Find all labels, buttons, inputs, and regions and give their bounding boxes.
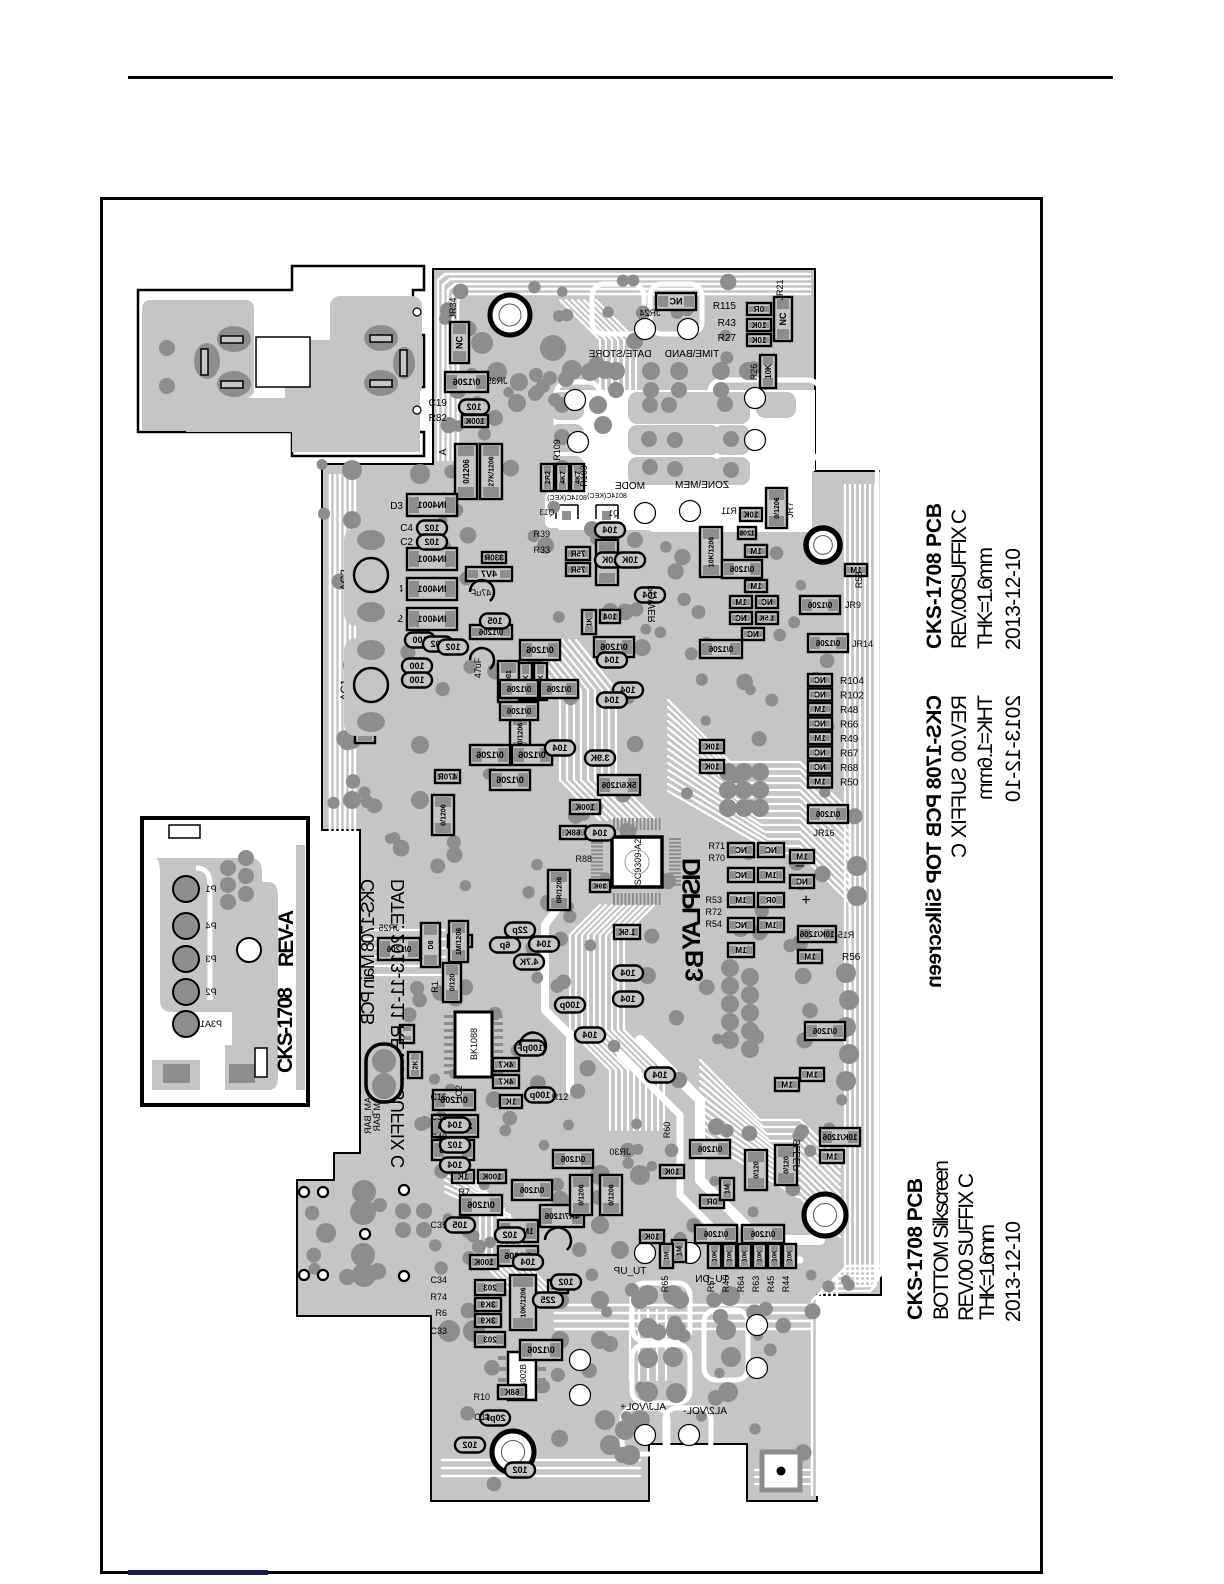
svg-text:CKS-1708 PCB TOP Silkscreen: CKS-1708 PCB TOP Silkscreen — [923, 695, 946, 988]
svg-text:JR34: JR34 — [448, 297, 458, 318]
svg-text:R104: R104 — [840, 676, 864, 687]
svg-text:4K7: 4K7 — [498, 1060, 513, 1069]
svg-text:NC: NC — [765, 846, 777, 855]
svg-text:0/1206: 0/1206 — [453, 377, 481, 387]
svg-text:1K: 1K — [586, 618, 593, 627]
svg-text:R72: R72 — [705, 907, 722, 917]
svg-text:0/1206: 0/1206 — [519, 1186, 544, 1195]
svg-text:R58: R58 — [854, 572, 864, 589]
svg-text:BOTTOM Silkscreen: BOTTOM Silkscreen — [930, 1160, 953, 1320]
svg-text:BK1088: BK1088 — [469, 1028, 479, 1060]
svg-text:10K: 10K — [751, 321, 766, 330]
svg-text:10K: 10K — [621, 555, 638, 565]
svg-text:1.5K: 1.5K — [760, 615, 775, 622]
svg-text:NC: NC — [796, 877, 808, 886]
svg-text:R108: R108 — [579, 465, 589, 487]
svg-text:104: 104 — [520, 1257, 535, 1267]
svg-text:ZONE\MEM: ZONE\MEM — [675, 480, 729, 491]
svg-text:R6: R6 — [435, 1308, 447, 1318]
svg-text:R68: R68 — [840, 763, 859, 774]
svg-text:R54: R54 — [705, 919, 722, 929]
svg-text:10K: 10K — [751, 336, 766, 345]
svg-text:0/1206: 0/1206 — [518, 750, 546, 760]
svg-text:DISPLAY: DISPLAY — [678, 858, 706, 950]
svg-text:1M/1206: 1M/1206 — [456, 928, 463, 955]
svg-text:102: 102 — [445, 642, 460, 652]
svg-text:0/1206: 0/1206 — [546, 685, 571, 694]
svg-text:0/1206: 0/1206 — [600, 642, 628, 652]
svg-text:100K: 100K — [465, 417, 484, 426]
svg-text:0/1206: 0/1206 — [729, 565, 754, 574]
svg-text:4.7K: 4.7K — [519, 957, 539, 967]
svg-text:+: + — [801, 892, 810, 909]
svg-text:10K: 10K — [773, 1250, 779, 1262]
svg-text:104: 104 — [536, 939, 551, 949]
svg-text:0/1206: 0/1206 — [467, 1200, 495, 1210]
svg-text:100K: 100K — [474, 1258, 493, 1267]
svg-text:THK=1.6mm: THK=1.6mm — [974, 547, 997, 649]
svg-text:1M: 1M — [735, 598, 746, 607]
svg-text:C36: C36 — [430, 1112, 447, 1122]
svg-text:1M: 1M — [826, 1152, 837, 1161]
svg-text:0/1206: 0/1206 — [526, 645, 554, 655]
svg-text:10K: 10K — [704, 762, 719, 771]
svg-text:10K: 10K — [758, 1250, 764, 1262]
svg-text:C11: C11 — [474, 1412, 490, 1422]
svg-text:NC: NC — [669, 297, 682, 307]
svg-text:SC9309-A2: SC9309-A2 — [633, 839, 643, 886]
svg-text:NC: NC — [814, 676, 826, 685]
svg-text:0R: 0R — [766, 896, 776, 905]
svg-text:C19: C19 — [429, 398, 448, 409]
svg-text:8014C(KEC): 8014C(KEC) — [587, 493, 627, 500]
svg-text:75R: 75R — [570, 549, 585, 558]
svg-text:330R: 330R — [484, 553, 503, 562]
svg-text:470R: 470R — [438, 772, 457, 781]
svg-text:C35: C35 — [430, 1220, 447, 1230]
svg-text:C2: C2 — [400, 537, 413, 548]
svg-text:105: 105 — [487, 616, 502, 626]
svg-text:3.9K: 3.9K — [590, 753, 610, 763]
svg-text:Q13: Q13 — [539, 508, 555, 517]
svg-text:R56: R56 — [842, 952, 861, 963]
svg-text:R71: R71 — [708, 841, 725, 851]
svg-text:D3: D3 — [390, 501, 403, 512]
svg-text:10K: 10K — [664, 1167, 679, 1176]
svg-text:NC: NC — [735, 921, 747, 930]
svg-text:100K: 100K — [482, 1172, 501, 1181]
svg-text:JR21: JR21 — [775, 279, 785, 300]
svg-text:R39: R39 — [533, 529, 550, 539]
svg-text:1.5K: 1.5K — [618, 928, 635, 937]
svg-text:JR25: JR25 — [378, 923, 399, 933]
svg-text:NC: NC — [455, 336, 465, 349]
svg-text:P2: P2 — [205, 987, 216, 997]
svg-text:NC: NC — [747, 630, 759, 639]
svg-text:75R: 75R — [570, 565, 585, 574]
svg-text:R66: R66 — [840, 720, 859, 731]
svg-text:R109: R109 — [552, 439, 562, 461]
svg-text:102: 102 — [512, 1465, 527, 1475]
svg-text:0/1206: 0/1206 — [506, 707, 531, 716]
svg-text:P4: P4 — [205, 921, 216, 931]
svg-text:Q1: Q1 — [608, 509, 619, 518]
svg-text:104: 104 — [447, 1120, 462, 1130]
svg-text:68K: 68K — [565, 828, 580, 837]
svg-text:2013-12-10: 2013-12-10 — [1002, 695, 1025, 802]
svg-text:R82: R82 — [429, 413, 448, 424]
svg-text:R63: R63 — [751, 1276, 761, 1293]
svg-text:100: 100 — [409, 661, 424, 671]
svg-text:P1: P1 — [205, 884, 216, 894]
svg-text:0/1206: 0/1206 — [815, 810, 840, 819]
svg-text:R45: R45 — [766, 1276, 776, 1293]
svg-text:0/1206: 0/1206 — [506, 685, 531, 694]
svg-text:C33: C33 — [430, 1326, 447, 1336]
svg-text:104: 104 — [604, 655, 619, 665]
svg-text:R27: R27 — [718, 333, 737, 344]
svg-text:1M: 1M — [806, 1070, 817, 1079]
svg-text:0/1206: 0/1206 — [608, 1184, 615, 1206]
svg-text:39K: 39K — [594, 883, 607, 890]
svg-text:R12: R12 — [552, 1092, 569, 1102]
svg-text:4K7: 4K7 — [560, 471, 567, 484]
svg-text:C34: C34 — [430, 1275, 447, 1285]
svg-text:102: 102 — [424, 523, 439, 533]
svg-text:DATE\STORE: DATE\STORE — [588, 349, 651, 360]
svg-text:1M: 1M — [735, 896, 746, 905]
svg-text:REV-A: REV-A — [275, 910, 298, 967]
svg-text:R11: R11 — [721, 506, 737, 516]
svg-text:JR30: JR30 — [609, 1147, 630, 1157]
svg-text:NC: NC — [735, 846, 747, 855]
svg-text:0/1206: 0/1206 — [440, 804, 447, 826]
svg-text:0/1206: 0/1206 — [560, 1155, 585, 1164]
svg-text:1M: 1M — [750, 547, 761, 556]
svg-text:2K: 2K — [412, 1061, 419, 1070]
svg-text:–: – — [796, 857, 805, 874]
svg-text:THK=1.6mm: THK=1.6mm — [976, 1224, 999, 1320]
svg-text:104: 104 — [604, 695, 619, 705]
svg-text:102: 102 — [558, 1277, 573, 1287]
svg-text:4K7: 4K7 — [498, 1077, 513, 1086]
svg-text:NC: NC — [778, 312, 788, 325]
svg-text:NC: NC — [735, 614, 747, 623]
svg-text:D8: D8 — [428, 940, 435, 949]
svg-text:10K/1206: 10K/1206 — [822, 1133, 857, 1142]
svg-text:R115: R115 — [713, 301, 737, 312]
svg-text:10K: 10K — [764, 364, 773, 379]
svg-text:0/1206: 0/1206 — [815, 639, 840, 648]
svg-text:TU_UP: TU_UP — [613, 1266, 646, 1277]
svg-text:R88: R88 — [575, 854, 592, 864]
svg-text:203: 203 — [483, 1283, 497, 1292]
svg-text:1206: 1206 — [739, 530, 755, 537]
svg-text:102: 102 — [466, 402, 481, 412]
svg-text:R7: R7 — [458, 1187, 470, 1197]
svg-text:2013-12-10: 2013-12-10 — [1002, 1221, 1025, 1322]
svg-text:R64: R64 — [736, 1276, 746, 1293]
svg-text:R1: R1 — [430, 981, 440, 993]
svg-text:R49: R49 — [840, 734, 859, 745]
svg-text:104: 104 — [602, 525, 617, 535]
svg-text:R15: R15 — [838, 930, 855, 940]
svg-text:68K: 68K — [504, 1388, 519, 1397]
svg-text:10K: 10K — [743, 1250, 749, 1262]
svg-text:8014C(KEC): 8014C(KEC) — [547, 495, 587, 502]
svg-text:R48: R48 — [840, 705, 859, 716]
svg-text:102: 102 — [424, 537, 439, 547]
svg-text:NC: NC — [735, 871, 747, 880]
svg-text:0R: 0R — [754, 305, 764, 314]
svg-text:104: 104 — [620, 968, 635, 978]
svg-text:10K: 10K — [644, 1232, 659, 1241]
svg-text:0/1206: 0/1206 — [807, 601, 832, 610]
svg-text:ALJ/VOL+: ALJ/VOL+ — [620, 1402, 666, 1413]
svg-text:P3: P3 — [205, 954, 216, 964]
svg-text:C16: C16 — [430, 1092, 447, 1102]
svg-text:CKS-1708 PCB: CKS-1708 PCB — [923, 503, 946, 649]
svg-text:102: 102 — [462, 1440, 477, 1450]
svg-text:0/1206: 0/1206 — [703, 1230, 728, 1239]
svg-text:NC: NC — [761, 598, 773, 607]
svg-text:R102: R102 — [840, 691, 864, 702]
svg-text:10K: 10K — [743, 510, 758, 519]
svg-text:100p: 100p — [559, 1000, 580, 1010]
svg-text:JR24: JR24 — [639, 308, 660, 318]
svg-text:THK=1.6mm: THK=1.6mm — [974, 695, 997, 800]
svg-text:0/1206: 0/1206 — [750, 1230, 775, 1239]
svg-text:102: 102 — [447, 1140, 462, 1150]
svg-text:IN4001: IN4001 — [417, 500, 446, 510]
svg-text:104: 104 — [582, 1030, 597, 1040]
svg-text:IC2: IC2 — [454, 1085, 464, 1099]
svg-text:102: 102 — [502, 1230, 517, 1240]
svg-text:REV.00SUFFIX C: REV.00SUFFIX C — [948, 509, 971, 649]
svg-text:3K9: 3K9 — [480, 1300, 495, 1309]
svg-text:100p: 100p — [529, 1090, 550, 1100]
svg-text:C4: C4 — [400, 523, 413, 534]
svg-text:TU_DN: TU_DN — [695, 1274, 728, 1285]
svg-text:0/120: 0/120 — [783, 1156, 790, 1174]
svg-text:5K6/1206: 5K6/1206 — [601, 781, 636, 790]
svg-text:P3A1: P3A1 — [200, 1019, 222, 1029]
svg-text:1M: 1M — [781, 1080, 792, 1089]
svg-text:AL2/VOL-: AL2/VOL- — [683, 1406, 727, 1417]
svg-text:R10: R10 — [473, 1392, 490, 1402]
svg-text:6p: 6p — [499, 940, 510, 950]
svg-text:NC: NC — [814, 690, 826, 699]
svg-text:0/1206: 0/1206 — [578, 1184, 585, 1206]
svg-text:0/120: 0/120 — [753, 1161, 760, 1179]
svg-text:REV.00 SUFFIX C: REV.00 SUFFIX C — [948, 695, 971, 858]
svg-text:R43: R43 — [718, 318, 737, 329]
svg-text:B3: B3 — [681, 950, 709, 982]
svg-text:22p: 22p — [512, 925, 528, 935]
svg-text:1M: 1M — [665, 1252, 671, 1260]
svg-text:CKS-1708 Main PCB: CKS-1708 Main PCB — [358, 879, 378, 1025]
svg-text:10K: 10K — [704, 742, 719, 751]
svg-text:R67: R67 — [840, 749, 859, 760]
svg-text:1M: 1M — [750, 582, 761, 591]
svg-text:105: 105 — [452, 1220, 467, 1230]
svg-text:47uF: 47uF — [473, 657, 483, 678]
svg-text:1M: 1M — [804, 952, 815, 961]
svg-text:0/1206: 0/1206 — [476, 750, 504, 760]
svg-text:0/120: 0/120 — [449, 974, 456, 992]
svg-text:SLEEP: SLEEP — [792, 1139, 803, 1172]
svg-text:R65: R65 — [660, 1276, 670, 1293]
svg-text:CKS-1708 PCB: CKS-1708 PCB — [904, 1178, 927, 1320]
svg-text:1M: 1M — [814, 705, 825, 714]
svg-text:MODE: MODE — [615, 481, 645, 492]
svg-text:0R/1206: 0R/1206 — [556, 877, 563, 904]
svg-text:POWER: POWER — [647, 585, 658, 623]
svg-text:R53: R53 — [705, 895, 722, 905]
svg-text:R33: R33 — [533, 545, 550, 555]
svg-text:IN4001: IN4001 — [417, 554, 446, 564]
svg-text:225: 225 — [540, 1295, 555, 1305]
svg-text:0/1206: 0/1206 — [462, 459, 471, 484]
svg-text:1M: 1M — [814, 777, 825, 786]
svg-text:JR14: JR14 — [852, 639, 873, 649]
svg-text:100: 100 — [409, 675, 424, 685]
svg-text:10K: 10K — [728, 1250, 734, 1262]
svg-text:1M: 1M — [765, 871, 776, 880]
svg-text:R44: R44 — [781, 1276, 791, 1293]
svg-text:104: 104 — [552, 743, 567, 753]
svg-text:203: 203 — [483, 1335, 497, 1344]
svg-text:1M: 1M — [724, 1184, 731, 1194]
svg-text:10K/1206: 10K/1206 — [708, 537, 715, 567]
svg-text:47uF: 47uF — [470, 588, 491, 598]
svg-text:0/1206: 0/1206 — [517, 723, 524, 745]
svg-text:2013-12-10: 2013-12-10 — [1002, 548, 1025, 650]
svg-text:104: 104 — [603, 612, 617, 621]
svg-text:104: 104 — [652, 1070, 667, 1080]
svg-text:JR9: JR9 — [845, 600, 861, 610]
svg-text:1M: 1M — [735, 946, 746, 955]
svg-text:4V7: 4V7 — [481, 569, 497, 579]
svg-text:REV.00 SUFFIX C: REV.00 SUFFIX C — [955, 1173, 978, 1321]
svg-text:3K9: 3K9 — [480, 1316, 495, 1325]
svg-text:A: A — [438, 448, 449, 455]
svg-text:R60: R60 — [662, 1122, 672, 1139]
svg-text:JR16: JR16 — [813, 828, 834, 838]
svg-text:NC: NC — [814, 719, 826, 728]
svg-text:1M: 1M — [765, 921, 776, 930]
svg-text:0/1206: 0/1206 — [708, 645, 733, 654]
svg-text:1M: 1M — [676, 1246, 683, 1256]
svg-text:100K: 100K — [575, 803, 594, 812]
svg-text:0/1206: 0/1206 — [812, 1027, 837, 1036]
svg-text:0/1206: 0/1206 — [527, 1345, 555, 1355]
svg-text:C40: C40 — [430, 1132, 447, 1142]
svg-text:JR35: JR35 — [486, 376, 507, 386]
svg-text:R70: R70 — [708, 853, 725, 863]
svg-text:27K/1206: 27K/1206 — [488, 456, 495, 486]
svg-text:R74: R74 — [430, 1292, 447, 1302]
svg-text:10K: 10K — [713, 1250, 719, 1262]
svg-text:1K: 1K — [506, 1097, 516, 1106]
svg-text:0/1206: 0/1206 — [697, 1145, 722, 1154]
svg-text:104: 104 — [620, 994, 635, 1004]
svg-text:0/1206: 0/1206 — [496, 775, 524, 785]
svg-text:NC: NC — [814, 748, 826, 757]
svg-text:0R: 0R — [707, 1197, 717, 1206]
svg-text:CKS-1708: CKS-1708 — [274, 987, 297, 1073]
svg-text:104: 104 — [447, 1160, 462, 1170]
svg-text:IN4001: IN4001 — [417, 614, 446, 624]
svg-text:2R2: 2R2 — [545, 471, 552, 484]
svg-text:10K/1206: 10K/1206 — [799, 930, 834, 939]
svg-text:R26: R26 — [749, 364, 759, 381]
svg-text:10K/1206: 10K/1206 — [520, 1287, 527, 1317]
svg-text:TIME\BAND: TIME\BAND — [665, 349, 719, 360]
svg-text:JR7: JR7 — [785, 502, 795, 518]
svg-text:1M: 1M — [814, 734, 825, 743]
svg-text:10K: 10K — [788, 1250, 794, 1262]
svg-text:R50: R50 — [840, 778, 859, 789]
svg-text:NC: NC — [814, 763, 826, 772]
svg-text:0/1206: 0/1206 — [774, 497, 781, 519]
svg-text:104: 104 — [592, 828, 607, 838]
svg-text:IN4001: IN4001 — [417, 584, 446, 594]
